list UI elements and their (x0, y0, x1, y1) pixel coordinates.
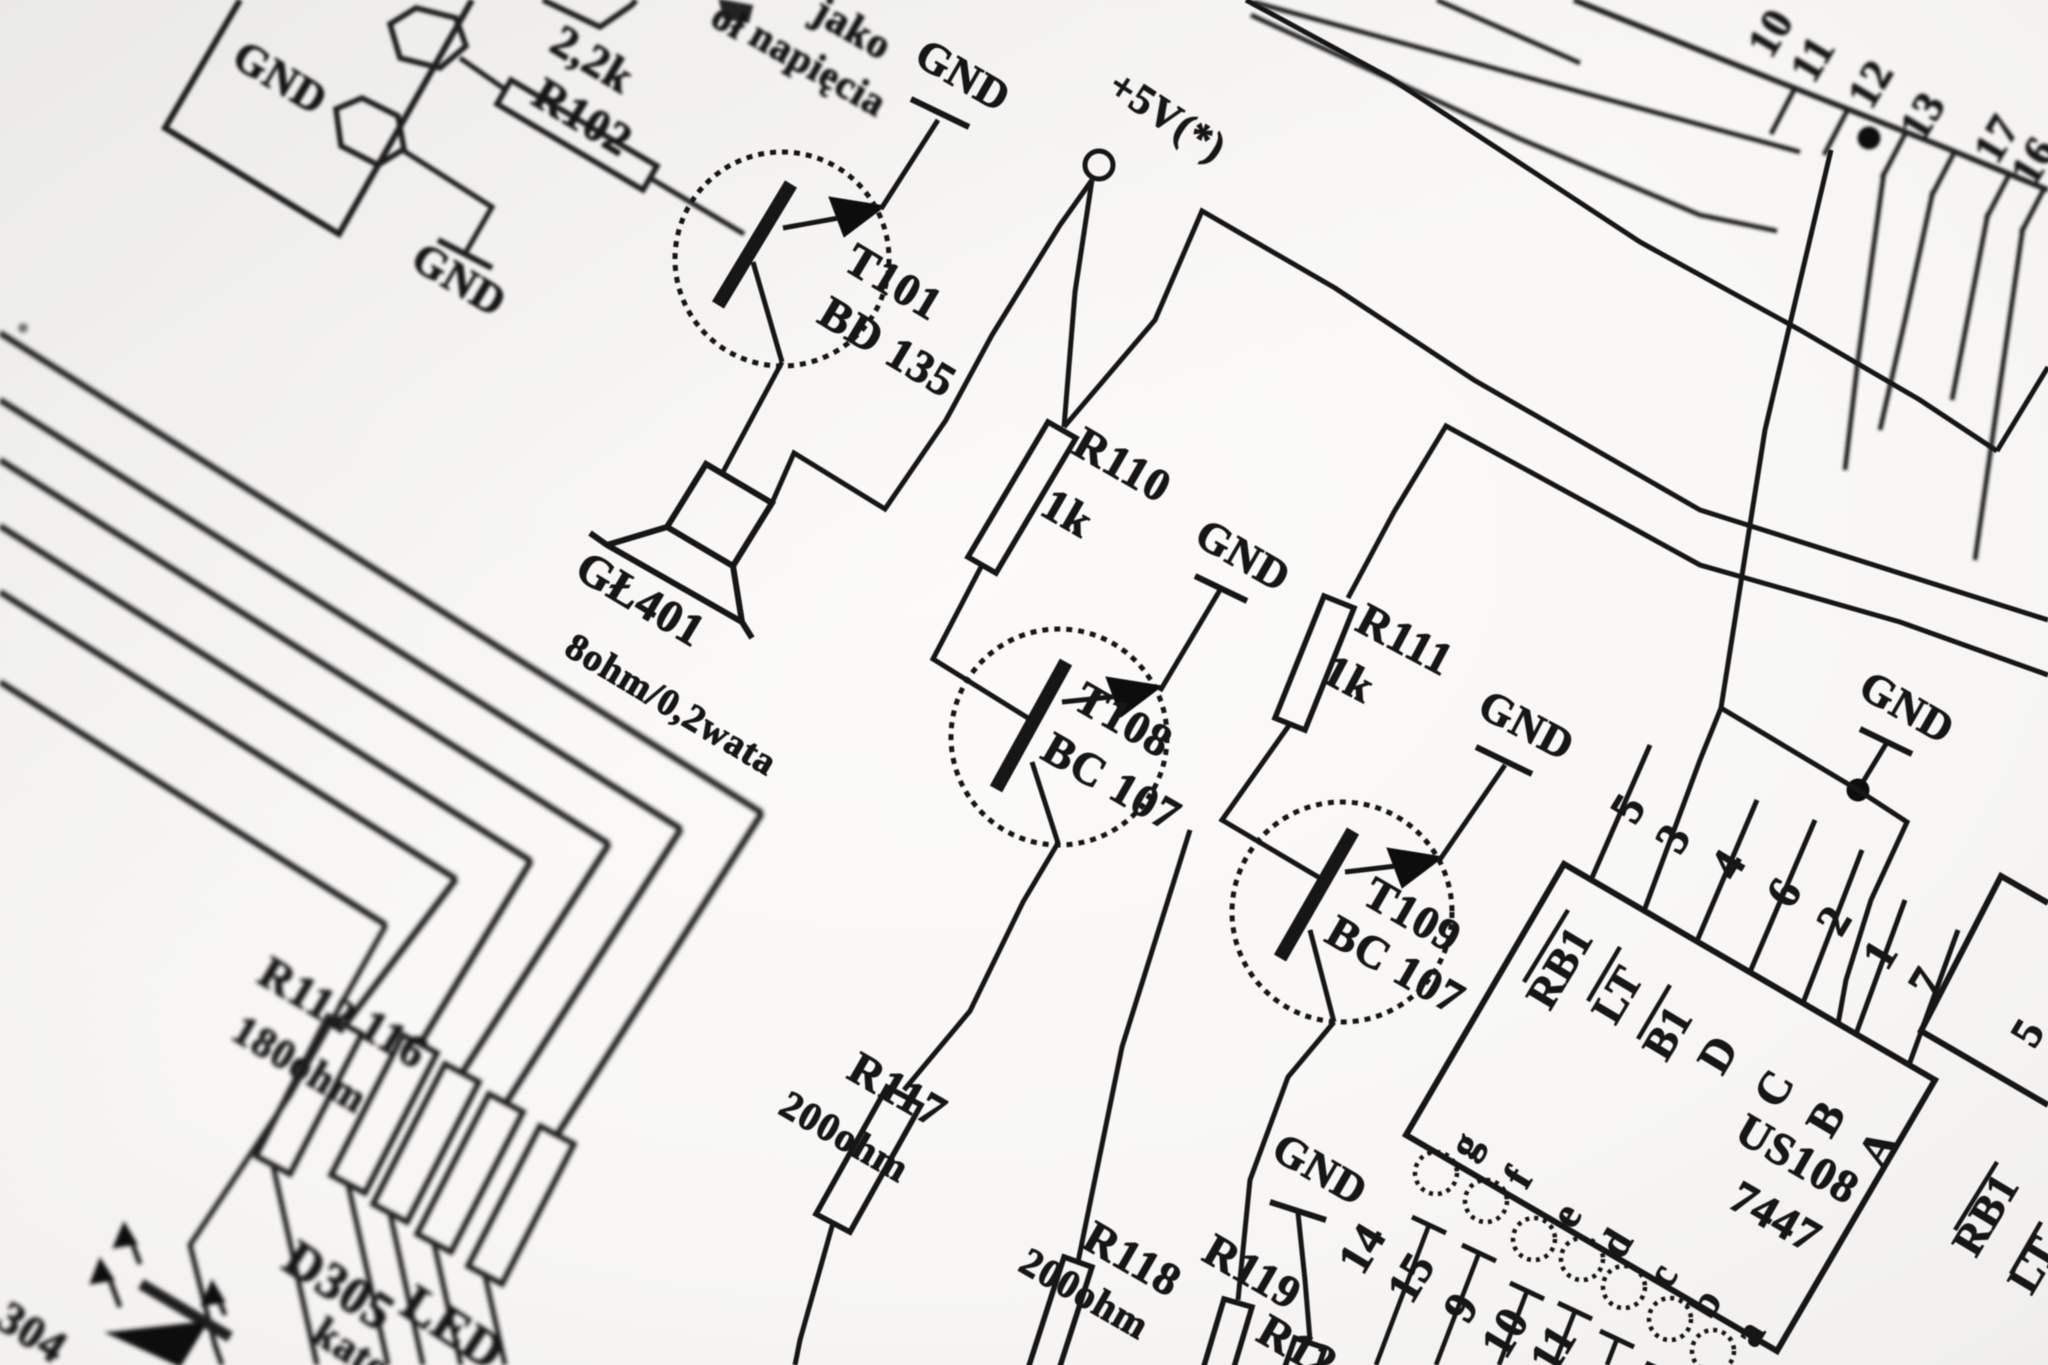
counter vertical wire e (1975, 227, 2023, 560)
pin B1 overline (1638, 985, 1670, 1039)
bus wire left leg 5 (0, 592, 456, 879)
T108 emitter line (1062, 693, 1150, 702)
bus wire left leg 2 (0, 400, 681, 829)
counter pin stub 4 (1931, 151, 1955, 197)
wire T109 emitter to GND (1439, 765, 1505, 861)
US108 output pin circle 6 (1649, 1298, 1691, 1340)
counter box outer edge (1574, 0, 2048, 190)
wire GND bottom to R120 (1298, 1213, 1310, 1340)
counter pin stub 6 (2021, 187, 2045, 233)
ground symbol bottom bar (1270, 1202, 1326, 1220)
wire below R113 (348, 1184, 388, 1365)
T108 base bar (996, 662, 1066, 789)
wire T101 to speaker (723, 362, 782, 472)
junction dot right (1847, 779, 1869, 801)
US108 pin tick 4 (1558, 1303, 1592, 1319)
bus wire down leg 3 (462, 844, 609, 1073)
counter partial edge (1437, 0, 1580, 63)
bus wire left leg 4 (0, 526, 531, 861)
US108 pin2 wire (1803, 850, 1862, 1003)
US108 pin3 wire (1644, 708, 1721, 911)
resistor R114 (373, 1064, 479, 1222)
speaker horn side B (733, 566, 742, 622)
wire below R112 (273, 1165, 317, 1365)
wire +5V to R110 (1064, 180, 1092, 427)
LED arrow 1 (107, 1272, 120, 1307)
counter vertical wire c (1880, 191, 1933, 430)
US108 output pin circle 2 (1465, 1180, 1507, 1222)
US108 output pin circle 4 (1561, 1238, 1603, 1280)
long bus wire L1 (1246, 0, 1997, 451)
US108 pin tick 5 (1600, 1331, 1634, 1347)
counter pin stub 3 (1882, 132, 1906, 178)
US108 output pin circle 1 (1415, 1152, 1457, 1194)
T101 emitter line (783, 212, 872, 228)
smudge glyph before jako (720, 0, 752, 22)
IC US108 box (1406, 864, 1935, 1351)
IC bottom-right box (1921, 876, 2048, 1105)
T101 base bar (718, 184, 791, 305)
US108 pin4 wire (1697, 800, 1757, 941)
resistor R116 (468, 1126, 574, 1284)
US108 pin tick 1 (1412, 1217, 1446, 1233)
+5V terminal circle (1085, 151, 1113, 179)
resistor R102 (497, 80, 657, 190)
counter box inner edge (1251, 15, 1777, 231)
bus wire left leg 1 (0, 333, 762, 813)
resistor R115 (417, 1094, 523, 1252)
wire to R118 (1078, 830, 1190, 1262)
US108 pin wire 3 (1499, 1291, 1527, 1365)
wire corner through junction (1721, 708, 1907, 1024)
pin RB1 overline (1524, 910, 1568, 982)
junction dot counter (1858, 127, 1880, 149)
wire below R115 (434, 1243, 461, 1365)
LED arrow 3 (215, 1290, 225, 1315)
connector box (165, 0, 472, 234)
T108 collector line (1032, 762, 1058, 843)
T101 collector line (753, 262, 782, 362)
resistor R112 (256, 1016, 362, 1174)
T109 base bar (1280, 831, 1353, 958)
bus wire down leg 4 (420, 861, 531, 1044)
counter vertical wire b (1845, 172, 1884, 470)
ground symbol lower-left bar (438, 240, 492, 268)
LED arrow 2 head (113, 1222, 137, 1248)
pin RB1 overline bottom-right (1955, 1162, 1997, 1230)
T108 emitter arrowhead (1106, 677, 1162, 717)
wire below R116 (485, 1275, 505, 1365)
US108 pin tick 2 (1462, 1245, 1496, 1261)
resistor R110 (968, 422, 1076, 573)
wire T109 collector to R119 (1238, 1022, 1334, 1300)
T101 emitter arrowhead (829, 197, 885, 237)
transistor T109 circle (1232, 802, 1452, 1022)
pin LT overline (1588, 947, 1620, 1001)
pin LT overline bottom-right (2011, 1222, 2041, 1274)
wire R110 to T108 base (933, 565, 1028, 718)
LED arrow 3 head (201, 1280, 225, 1306)
resistor R120 partial (1275, 1338, 1325, 1365)
wire speaker to +5V (772, 180, 1092, 509)
T109 emitter line (1345, 862, 1430, 872)
paper speck (19, 324, 27, 332)
bus wire down leg 2 (506, 829, 681, 1103)
LED arrow 1 head (90, 1258, 114, 1284)
US108 pin7 wire (1909, 930, 1958, 1065)
resistor R119 (1198, 1299, 1252, 1365)
connector pin hexagon 2 (336, 98, 404, 165)
speaker horn mouth (590, 533, 752, 638)
US108 output pin circle 7 (1692, 1330, 1734, 1365)
loop corner to R111 (1348, 426, 2048, 675)
wire bus to LED (190, 925, 386, 1365)
counter vertical wire d (1952, 213, 1988, 400)
ground symbol right bar (1860, 729, 1912, 754)
bus wire left leg 6 (0, 682, 386, 925)
counter pin stub 2 (1824, 109, 1848, 155)
wire corner up to counter (1721, 150, 1831, 708)
resistor R117 (816, 1087, 921, 1232)
US108 pin tick 6 (1646, 1363, 1680, 1365)
US108 pin wire 2 (1436, 1253, 1479, 1365)
US108 pin5 wire (1591, 745, 1650, 880)
resistor R118 (1026, 1257, 1092, 1365)
bus wire L1 end riser (1997, 367, 2048, 451)
US108 pin6 wire (1750, 820, 1815, 972)
wire T108 emitter to GND (1160, 590, 1220, 691)
US108 pin1 wire (1856, 900, 1905, 1034)
counter pin stub 1 (1771, 88, 1795, 134)
wire GND right to junction (1858, 744, 1886, 790)
partial box top edge (543, 0, 636, 27)
wire R111 to T109 base (1222, 724, 1330, 884)
transistor T108 circle (951, 629, 1167, 845)
ground symbol T108 bar (1195, 576, 1247, 601)
wire below R114 (390, 1213, 423, 1365)
resistor R113 (331, 1035, 437, 1193)
US108 pin wire 4 (1554, 1311, 1575, 1365)
LED D305 bar (141, 1284, 230, 1337)
bus wire down leg 1 (557, 813, 762, 1135)
connector pin hexagon 1 (390, 8, 466, 68)
speaker GL401 box (667, 464, 772, 566)
US108 pin wire 5 (1607, 1339, 1617, 1365)
ground symbol T109 bar (1476, 747, 1532, 774)
counter pin stub 5 (1986, 173, 2010, 219)
loop corner to R110 node (1064, 211, 2048, 620)
wire to lower GND (404, 151, 492, 252)
wire R117 down (795, 1223, 833, 1365)
ground symbol T101 bar (911, 99, 969, 127)
T109 collector line (1310, 930, 1334, 1022)
LED D305 triangle (108, 1322, 207, 1365)
bus wire L1b (1253, 2, 1800, 152)
US108 pin tick 3 (1510, 1283, 1544, 1299)
wire R102 to T101 base (650, 178, 744, 234)
wire hexagon1 to R102 (460, 58, 506, 90)
T109 emitter arrowhead (1387, 848, 1443, 888)
LED arrow 2 (129, 1234, 140, 1264)
transistor T101 circle (675, 152, 889, 366)
bus wire down leg 5 (345, 879, 456, 1025)
speaker horn side A (607, 527, 667, 545)
US108 output pin circle 5 (1603, 1266, 1645, 1308)
wire T101 emitter to GND (881, 120, 938, 209)
wire T108 collector to R117 (904, 843, 1058, 1090)
resistor R111 (1275, 596, 1354, 730)
bus wire left leg 3 (0, 460, 609, 844)
US108 output pin circle 3 (1513, 1218, 1555, 1260)
US108 pin wire 1 (1376, 1225, 1429, 1365)
